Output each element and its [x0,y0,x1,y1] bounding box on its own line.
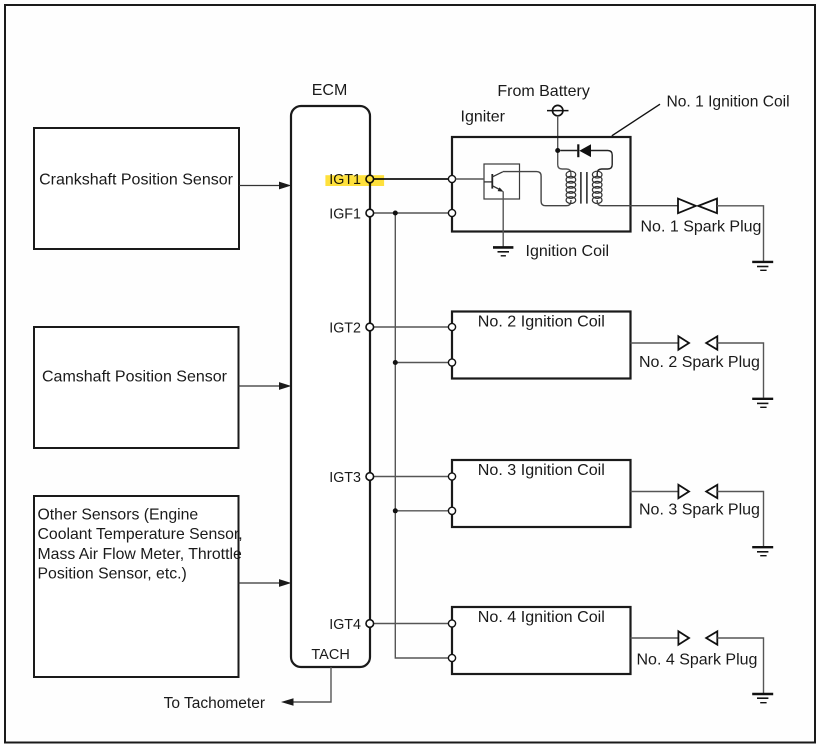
svg-text:No. 3 Spark Plug: No. 3 Spark Plug [639,502,760,519]
pointer line to No. 1 Ignition Coil label [612,104,660,136]
wire to tachometer [164,667,331,712]
svg-text:Mass Air Flow Meter, Throttle: Mass Air Flow Meter, Throttle [38,546,242,563]
svg-text:No. 3 Ignition Coil: No. 3 Ignition Coil [478,461,605,479]
svg-text:No. 1 Ignition Coil: No. 1 Ignition Coil [667,94,790,111]
svg-text:Camshaft Position Sensor: Camshaft Position Sensor [42,369,228,386]
svg-text:To Tachometer: To Tachometer [164,695,265,712]
svg-text:From Battery: From Battery [497,83,589,100]
spark plug gap No.3 [678,485,717,498]
wire feedback branch to No.3 coil [395,510,448,512]
wire secondary winding bottom out to spark plug [597,200,677,206]
wire No.1 spark plug to ground [717,206,764,261]
wire IGT4 from ECM to No.4 coil [374,623,448,625]
terminal circle igniter IGT1 [448,175,455,182]
svg-text:IGF1: IGF1 [329,207,361,223]
wire No.3 coil to spark plug [631,491,678,493]
transistor Q1 box [484,164,520,199]
wire arrow from Crankshaft Position Sensor to ECM [239,182,291,190]
svg-text:No. 1 Spark Plug: No. 1 Spark Plug [641,219,762,236]
svg-text:Position Sensor, etc.): Position Sensor, etc.) [38,566,187,583]
pin circle IGT2 [366,323,374,331]
terminal circle No.3 IGF [448,507,455,514]
wire arrow from Camshaft Position Sensor to ECM [239,382,292,390]
ground under transistor [493,247,513,255]
wire IGT2 from ECM to No.2 coil [374,326,448,328]
wire No.3 spark plug to ground [717,492,763,547]
junction dot feedback No.3 [393,508,398,513]
pin circle IGT1 [366,175,374,183]
ground No.2 spark plug [752,399,773,408]
pin circle IGT4 [366,620,374,628]
svg-text:No. 2 Spark Plug: No. 2 Spark Plug [639,354,760,371]
ground No.4 spark plug [752,694,773,703]
terminal circle igniter IGF1 [448,209,455,216]
igniter box [452,137,631,232]
svg-text:IGT4: IGT4 [329,617,361,633]
svg-text:Coolant Temperature Sensor,: Coolant Temperature Sensor, [38,526,243,543]
wire No.2 spark plug to ground [717,343,763,398]
ground No.3 spark plug [752,547,773,556]
junction dot feedback No.2 [393,360,398,365]
diode D1 [560,144,591,157]
wire from battery down into igniter [558,116,571,176]
svg-text:TACH: TACH [311,647,349,663]
wire No.2 coil to spark plug [631,342,678,344]
wire from diode to secondary winding top [591,151,612,177]
svg-text:No. 4 Ignition Coil: No. 4 Ignition Coil [478,608,605,626]
wire IGT3 from ECM to No.3 coil [374,476,448,478]
ground No.1 spark plug [752,262,773,270]
box No. 2 Ignition Coil [452,312,631,379]
svg-text:Ignition Coil: Ignition Coil [526,243,610,260]
junction dot IGF1 [393,211,398,216]
svg-text:No. 2 Ignition Coil: No. 2 Ignition Coil [478,313,605,331]
wire emitter to ground [502,191,504,246]
junction dot battery feed [555,148,560,153]
box Camshaft Position Sensor [34,327,239,448]
transformer T1 secondary winding [592,171,602,203]
svg-text:Other Sensors (Engine: Other Sensors (Engine [38,507,199,524]
wire IGF1 from ECM to igniter [374,212,448,214]
spark plug gap No.4 [678,631,717,644]
wire arrow from Other Sensors to ECM [239,579,292,587]
wire collector to primary winding bottom [503,172,571,206]
battery terminal symbol [547,105,569,115]
svg-text:IGT2: IGT2 [329,320,361,336]
wire No.4 spark plug to ground [717,638,763,693]
svg-text:No. 4 Spark Plug: No. 4 Spark Plug [637,652,758,669]
wire IGF feedback vertical bus [395,213,448,658]
box Crankshaft Position Sensor [34,128,239,249]
svg-text:Igniter: Igniter [461,109,506,126]
wire feedback branch to No.2 coil [395,362,448,364]
transistor Q1 symbol [484,172,504,192]
pin circle IGT3 [366,473,374,481]
box No. 4 Ignition Coil [452,607,631,674]
wire base from IGT1 terminal [456,178,484,180]
terminal circle No.2 IGT [448,323,455,330]
transformer T1 primary winding [566,171,576,203]
transformer T1 core [581,172,587,204]
highlight on IGT1 [325,175,384,186]
svg-text:Crankshaft Position Sensor: Crankshaft Position Sensor [39,172,234,189]
box No. 3 Ignition Coil [452,460,631,527]
terminal circle No.4 IGT [448,620,455,627]
spark plug gap No.2 [678,336,717,349]
svg-text:IGT3: IGT3 [329,470,361,486]
ECM block U1 [291,82,370,667]
terminal circle No.4 IGF [448,654,455,661]
box Other Sensors [34,496,243,677]
spark plug gap No.1 [678,199,717,214]
pin circle IGF1 [366,209,374,217]
wire No.4 coil to spark plug [631,637,678,639]
svg-text:ECM: ECM [312,82,348,99]
terminal circle No.3 IGT [448,473,455,480]
wire IGT1 from ECM to igniter [374,178,448,180]
terminal circle No.2 IGF [448,359,455,366]
